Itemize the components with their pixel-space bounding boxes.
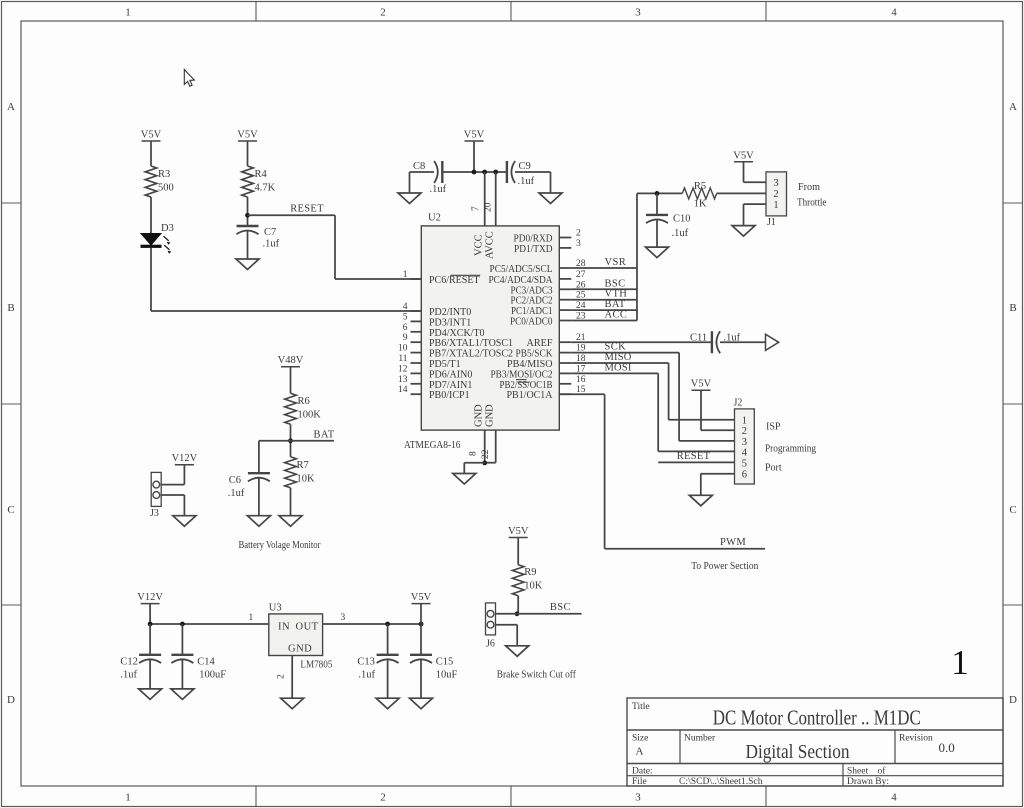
svg-text:5: 5 <box>742 458 747 469</box>
svg-text:Title: Title <box>632 702 650 712</box>
svg-text:10K: 10K <box>524 581 543 592</box>
svg-text:PWM: PWM <box>720 537 746 548</box>
svg-text:Size: Size <box>632 734 648 744</box>
svg-text:BAT: BAT <box>605 299 626 310</box>
svg-text:V5V: V5V <box>691 379 712 390</box>
svg-text:13: 13 <box>398 375 408 385</box>
svg-text:500: 500 <box>158 183 174 194</box>
svg-text:4.7K: 4.7K <box>255 183 276 194</box>
svg-text:Brake Switch Cut off: Brake Switch Cut off <box>497 670 577 681</box>
svg-text:R9: R9 <box>524 567 536 578</box>
svg-text:A: A <box>1009 101 1017 113</box>
svg-text:PC5/ADC5/SCL: PC5/ADC5/SCL <box>490 264 553 275</box>
svg-text:BSC: BSC <box>550 602 571 613</box>
svg-text:100uF: 100uF <box>199 670 226 681</box>
svg-text:ATMEGA8-16: ATMEGA8-16 <box>404 440 461 451</box>
svg-text:PD5/T1: PD5/T1 <box>429 359 461 370</box>
svg-text:To Power Section: To Power Section <box>691 561 758 572</box>
svg-text:A: A <box>7 101 15 113</box>
svg-text:GND: GND <box>288 644 312 655</box>
svg-text:6: 6 <box>403 323 408 333</box>
svg-text:7: 7 <box>471 206 481 211</box>
svg-text:D3: D3 <box>161 223 174 234</box>
svg-text:Programming: Programming <box>765 444 816 455</box>
svg-text:Throttle: Throttle <box>797 198 827 209</box>
svg-text:SCK: SCK <box>605 342 627 353</box>
svg-text:Sheet: Sheet <box>847 767 868 777</box>
svg-text:C: C <box>1009 504 1016 516</box>
svg-text:VTH: VTH <box>605 289 628 300</box>
svg-text:PC0/ADC0: PC0/ADC0 <box>510 317 553 328</box>
svg-text:Drawn By:: Drawn By: <box>847 777 889 787</box>
svg-text:PB5/SCK: PB5/SCK <box>516 349 554 360</box>
svg-text:1: 1 <box>125 7 131 19</box>
svg-text:C14: C14 <box>197 657 215 668</box>
svg-text:Battery Volage Monitor: Battery Volage Monitor <box>239 540 322 551</box>
svg-text:0.0: 0.0 <box>939 740 955 755</box>
svg-text:DC Motor Controller .. M1DC: DC Motor Controller .. M1DC <box>713 706 921 730</box>
svg-text:PD2/INT0: PD2/INT0 <box>429 307 471 318</box>
svg-text:1: 1 <box>125 792 131 804</box>
svg-text:PB2/SS/OC1B: PB2/SS/OC1B <box>500 380 553 391</box>
svg-text:11: 11 <box>398 354 407 364</box>
svg-text:27: 27 <box>576 270 586 280</box>
svg-text:V5V: V5V <box>733 150 754 161</box>
svg-text:GND: GND <box>473 404 484 427</box>
svg-text:10K: 10K <box>297 474 316 485</box>
svg-text:PD3/INT1: PD3/INT1 <box>429 317 471 328</box>
svg-text:C8: C8 <box>413 161 425 172</box>
svg-text:PC6/RESET: PC6/RESET <box>429 275 480 286</box>
svg-text:U3: U3 <box>269 603 282 614</box>
svg-text:B: B <box>1009 302 1016 314</box>
svg-text:Digital Section: Digital Section <box>746 741 850 763</box>
svg-text:V48V: V48V <box>278 355 304 366</box>
svg-text:GND: GND <box>484 404 495 427</box>
svg-text:U2: U2 <box>428 213 441 224</box>
svg-text:C: C <box>7 504 14 516</box>
svg-text:10: 10 <box>398 344 408 354</box>
svg-text:Number: Number <box>684 734 716 744</box>
svg-text:B: B <box>7 302 14 314</box>
svg-text:3: 3 <box>742 437 747 448</box>
svg-text:VSR: VSR <box>605 257 627 268</box>
svg-text:LM7805: LM7805 <box>300 660 332 671</box>
svg-text:Port: Port <box>765 463 782 474</box>
svg-text:IN: IN <box>278 622 290 633</box>
svg-text:PD0/RXD: PD0/RXD <box>514 234 553 245</box>
svg-text:BSC: BSC <box>605 278 626 289</box>
svg-text:1K: 1K <box>694 199 707 210</box>
svg-text:ACC: ACC <box>605 310 628 321</box>
svg-text:R3: R3 <box>158 169 170 180</box>
svg-text:AREF: AREF <box>527 338 553 349</box>
svg-text:PD1/TXD: PD1/TXD <box>514 244 553 255</box>
svg-text:.1uf: .1uf <box>263 239 280 250</box>
svg-text:File: File <box>632 777 647 787</box>
svg-text:9: 9 <box>403 333 408 343</box>
svg-text:.1uf: .1uf <box>430 184 447 195</box>
svg-text:C:\SCD\..\Sheet1.Sch: C:\SCD\..\Sheet1.Sch <box>679 777 763 787</box>
svg-text:C6: C6 <box>229 475 241 486</box>
svg-text:.1uf: .1uf <box>358 670 375 681</box>
svg-text:C12: C12 <box>120 657 138 668</box>
svg-text:C11: C11 <box>690 332 707 343</box>
svg-text:PC3/ADC3: PC3/ADC3 <box>511 285 553 296</box>
svg-text:3: 3 <box>341 613 346 623</box>
svg-text:V5V: V5V <box>411 592 432 603</box>
svg-text:PD6/AIN0: PD6/AIN0 <box>429 369 472 380</box>
svg-text:Revision: Revision <box>899 734 933 744</box>
svg-text:C9: C9 <box>519 161 531 172</box>
svg-text:V5V: V5V <box>141 130 162 141</box>
svg-text:PD4/XCK/T0: PD4/XCK/T0 <box>429 328 485 339</box>
svg-text:12: 12 <box>398 364 408 374</box>
svg-text:of: of <box>878 766 887 777</box>
svg-text:4: 4 <box>742 447 748 458</box>
svg-text:BAT: BAT <box>314 429 335 440</box>
svg-text:D: D <box>7 694 15 706</box>
svg-text:3: 3 <box>773 178 778 189</box>
svg-text:MOSI: MOSI <box>605 362 632 373</box>
svg-text:R6: R6 <box>298 396 310 407</box>
svg-text:100K: 100K <box>298 410 322 421</box>
svg-text:PB1/OC1A: PB1/OC1A <box>507 390 554 401</box>
svg-text:1: 1 <box>403 270 408 280</box>
svg-text:J1: J1 <box>767 217 776 228</box>
svg-text:PD7/AIN1: PD7/AIN1 <box>429 380 472 391</box>
svg-text:J6: J6 <box>486 639 495 650</box>
svg-text:AVCC: AVCC <box>484 231 495 259</box>
svg-text:From: From <box>798 182 820 193</box>
svg-text:8: 8 <box>469 451 479 456</box>
svg-text:MISO: MISO <box>605 352 632 363</box>
svg-text:PB3/MOSI/OC2: PB3/MOSI/OC2 <box>491 369 553 380</box>
svg-text:.1uf: .1uf <box>518 176 535 187</box>
svg-text:PC2/ADC2: PC2/ADC2 <box>511 296 553 307</box>
svg-text:4: 4 <box>403 302 408 312</box>
svg-text:PB7/XTAL2/TOSC2: PB7/XTAL2/TOSC2 <box>429 349 513 360</box>
svg-text:.1uf: .1uf <box>228 488 245 499</box>
svg-text:2: 2 <box>773 189 778 200</box>
svg-text:.1uf: .1uf <box>724 332 741 343</box>
svg-text:1: 1 <box>742 416 747 427</box>
svg-text:RESET: RESET <box>290 204 324 215</box>
svg-text:R5: R5 <box>694 181 706 192</box>
svg-text:C7: C7 <box>264 227 276 238</box>
svg-text:C13: C13 <box>357 657 375 668</box>
svg-text:RESET: RESET <box>677 451 711 462</box>
svg-text:3: 3 <box>635 792 641 804</box>
svg-text:V5V: V5V <box>464 130 485 141</box>
svg-text:.1uf: .1uf <box>120 670 137 681</box>
svg-text:3: 3 <box>635 7 641 19</box>
svg-text:6: 6 <box>742 470 747 481</box>
svg-text:C15: C15 <box>436 657 454 668</box>
svg-text:V5V: V5V <box>237 130 258 141</box>
svg-text:5: 5 <box>403 312 408 322</box>
svg-text:2: 2 <box>277 674 287 679</box>
svg-text:PB6/XTAL1/TOSC1: PB6/XTAL1/TOSC1 <box>429 338 513 349</box>
svg-text:14: 14 <box>398 385 408 395</box>
svg-text:VCC: VCC <box>473 234 484 256</box>
svg-text:ISP: ISP <box>766 422 781 433</box>
svg-text:Date:: Date: <box>632 767 653 777</box>
svg-text:R4: R4 <box>255 169 268 180</box>
svg-text:R7: R7 <box>297 460 309 471</box>
svg-text:1: 1 <box>773 200 778 211</box>
svg-text:16: 16 <box>576 375 586 385</box>
svg-text:1: 1 <box>249 613 254 623</box>
svg-text:D: D <box>1009 694 1017 706</box>
svg-text:J3: J3 <box>150 508 159 519</box>
svg-text:PC1/ADC1: PC1/ADC1 <box>511 306 553 317</box>
svg-text:OUT: OUT <box>296 622 319 633</box>
svg-text:2: 2 <box>742 426 747 437</box>
svg-text:A: A <box>636 746 644 758</box>
svg-text:4: 4 <box>891 792 897 804</box>
svg-text:4: 4 <box>891 7 897 19</box>
svg-text:2: 2 <box>380 792 386 804</box>
svg-text:V12V: V12V <box>137 592 163 603</box>
svg-text:V12V: V12V <box>172 453 198 464</box>
svg-text:10uF: 10uF <box>436 670 458 681</box>
svg-text:V5V: V5V <box>508 526 529 537</box>
svg-text:22: 22 <box>481 449 491 459</box>
svg-text:PB0/ICP1: PB0/ICP1 <box>429 390 470 401</box>
svg-text:1: 1 <box>951 643 969 682</box>
svg-text:20: 20 <box>484 202 494 212</box>
svg-text:3: 3 <box>576 239 581 249</box>
svg-text:2: 2 <box>380 7 386 19</box>
svg-text:PC4/ADC4/SDA: PC4/ADC4/SDA <box>489 275 554 286</box>
svg-text:J2: J2 <box>734 398 743 409</box>
svg-text:.1uf: .1uf <box>672 228 689 239</box>
svg-text:C10: C10 <box>673 214 691 225</box>
svg-text:2: 2 <box>576 229 581 239</box>
svg-text:PB4/MISO: PB4/MISO <box>507 359 553 370</box>
